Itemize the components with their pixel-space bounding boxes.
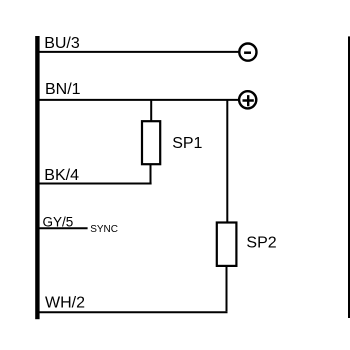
wire BN/1 to plus terminal (40, 99, 239, 101)
left terminal rail bar (35, 36, 39, 319)
svg-text:BN/1: BN/1 (45, 81, 81, 98)
svg-text:SP1: SP1 (172, 135, 202, 152)
wire BK/4 (40, 183, 152, 185)
plus supply terminal circle (239, 91, 256, 108)
svg-text:BK/4: BK/4 (44, 167, 79, 184)
resistor SP1 (142, 121, 160, 164)
minus supply terminal circle (239, 44, 256, 61)
svg-text:SYNC: SYNC (90, 224, 118, 235)
svg-text:GY/5: GY/5 (43, 215, 74, 230)
wire from BN/1 node down to SP1 (150, 100, 152, 121)
wire stub GY/5 sync input (40, 227, 88, 229)
right terminal rail bar (cropped at image edge) (348, 36, 350, 318)
wire WH/2 (40, 311, 228, 313)
svg-text:BU/3: BU/3 (44, 35, 80, 52)
resistor SP2 (217, 223, 237, 266)
svg-text:WH/2: WH/2 (45, 295, 85, 312)
wire from SP2 down to WH/2 corner (226, 267, 228, 312)
svg-text:SP2: SP2 (246, 235, 276, 252)
minus sign (244, 51, 251, 54)
plus sign (243, 95, 254, 106)
wire from BN/1 node down to SP2 (226, 100, 228, 223)
wire BU/3 to minus terminal (40, 51, 239, 53)
wire from SP1 down to BK/4 corner (150, 165, 152, 183)
